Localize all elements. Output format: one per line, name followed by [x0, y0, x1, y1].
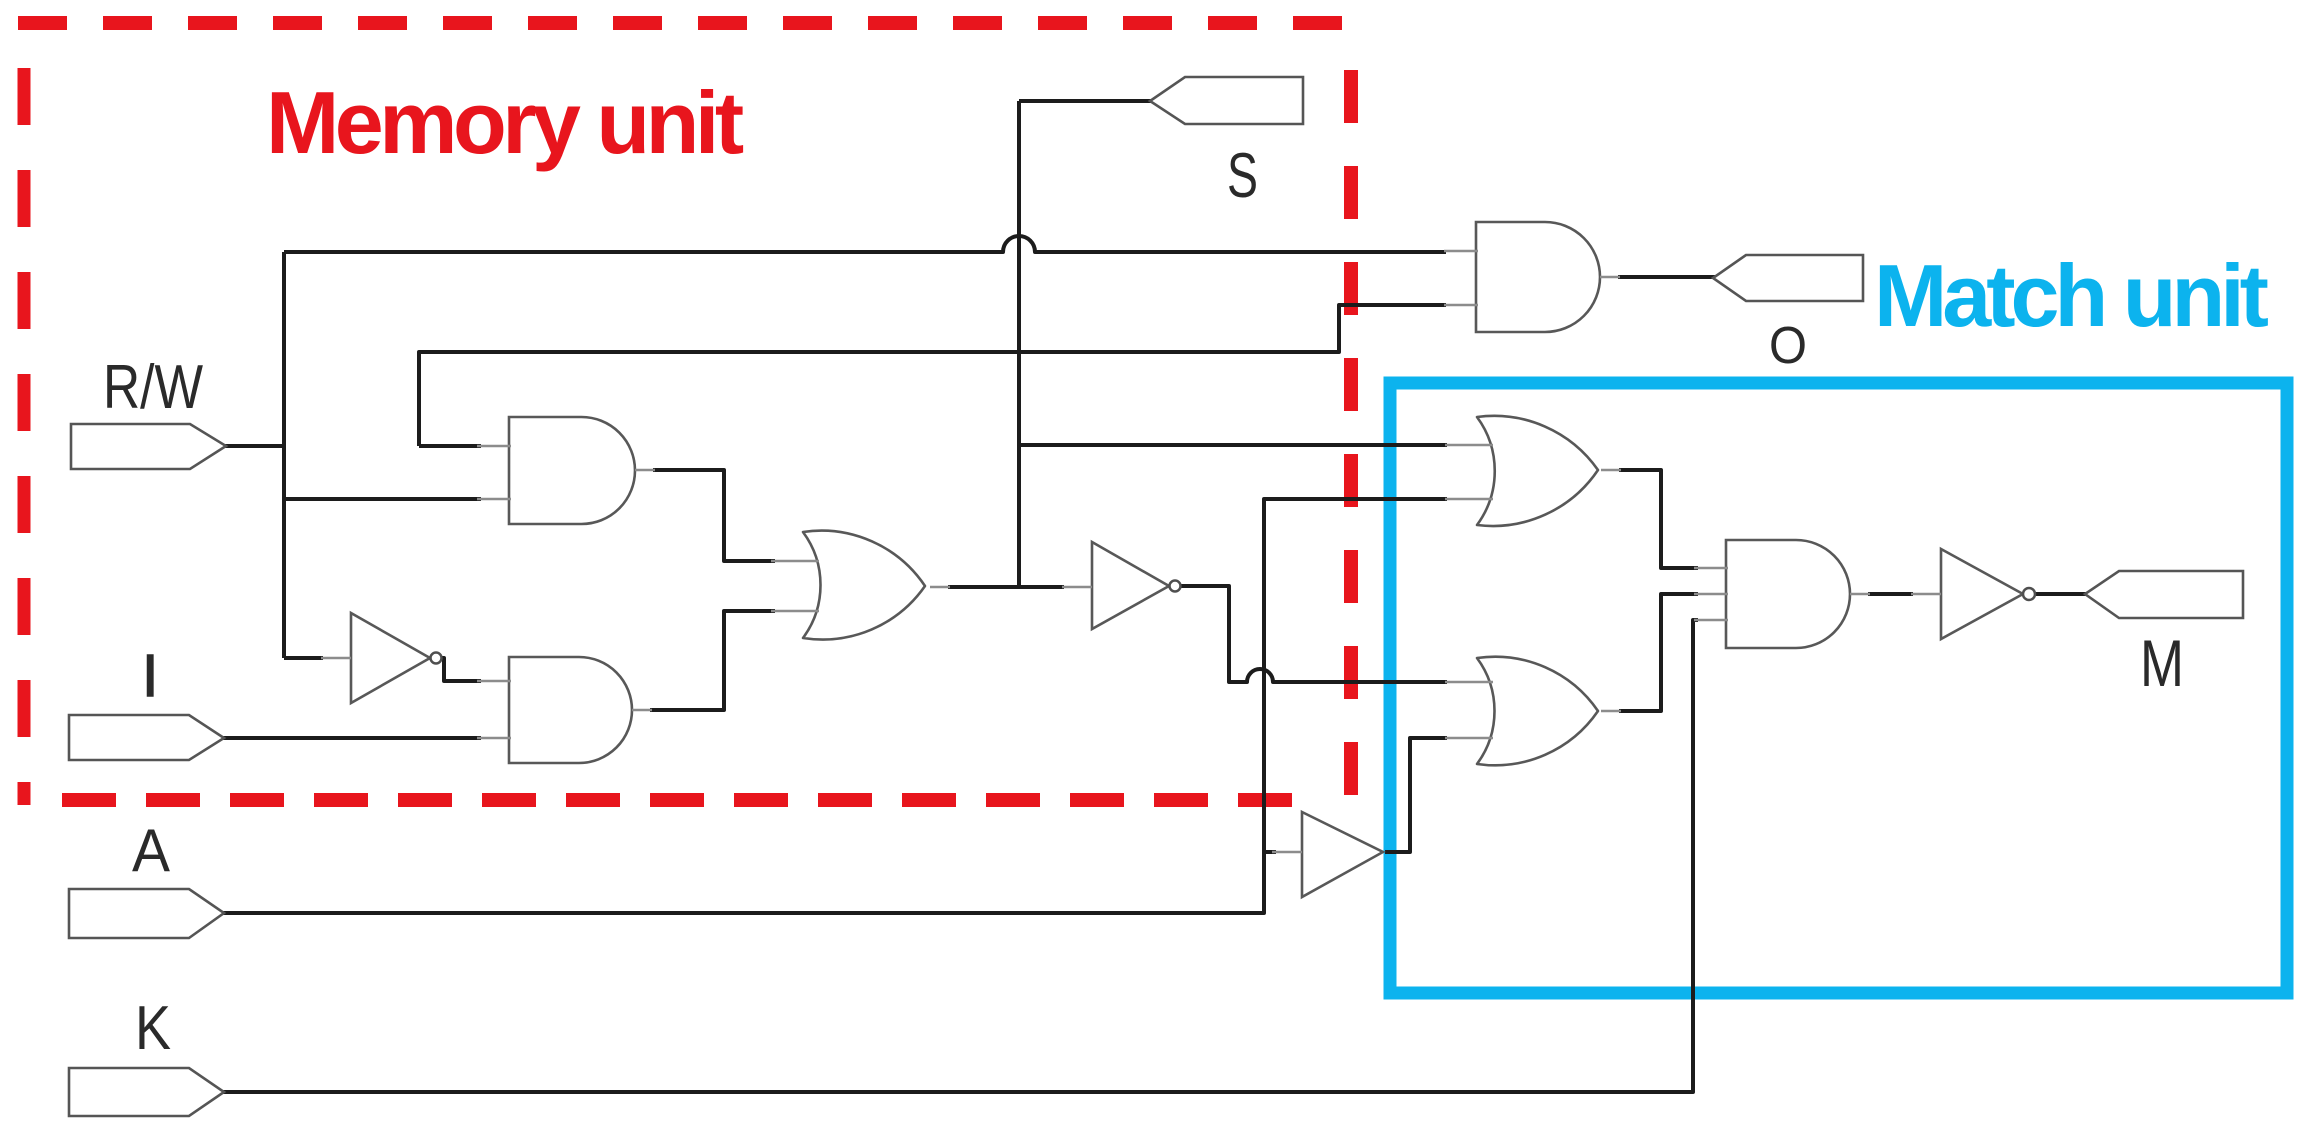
wire: K input to AND4 input 3 [214, 620, 1698, 1092]
wire: NOT2 output to OR3 top input (hop over A vertical) [1180, 586, 1447, 682]
wire: A branch to buffer input [1264, 850, 1276, 854]
not gate N1 (inverter on R/W) [321, 613, 442, 703]
wire: R/W branch to AND1 bottom input [284, 497, 481, 501]
wire: AND1 top input from vertical x=419 [419, 444, 481, 448]
wire: AND2 output to OR1 bottom input [650, 611, 775, 710]
wire: NOT3 output to M output flag [2035, 592, 2093, 596]
memory unit boundary (red dashed box) [18, 23, 1358, 805]
output port S [1150, 77, 1303, 124]
output port O [1713, 255, 1863, 301]
wire: A input to buffer and OR2 bottom input [214, 499, 1447, 913]
wire: buffer output to OR3 bottom input [1385, 738, 1447, 852]
wire: feedback rail y=352 from AND1-top-input vertical to AND3 bottom input [419, 305, 1446, 446]
svg-text:Memory unit: Memory unit [266, 73, 744, 172]
wire: NOT1 output to AND2 top input [441, 658, 481, 681]
wire: AND4 output to NOT3 input [1868, 592, 1913, 596]
and gate G4 (O output gate) [1444, 222, 1620, 332]
wire: OR2 output to AND4 input 1 [1619, 470, 1698, 568]
wire: I input to AND2 bottom input [214, 736, 481, 740]
not gate N3 (M inverter) [1911, 549, 2035, 639]
wire: AND1 output to OR1 top input [653, 470, 775, 561]
input port A [69, 889, 224, 938]
svg-text:S: S [1227, 141, 1258, 211]
output port M [2085, 571, 2243, 618]
input port R/W [71, 424, 226, 469]
or gate G6 (match bottom) [1445, 657, 1621, 766]
and gate G7 (match 3-input) [1694, 540, 1870, 648]
svg-text:O: O [1769, 317, 1807, 375]
svg-text:A: A [132, 817, 170, 884]
svg-text:M: M [2140, 626, 2184, 700]
wire: node S to S output flag [1019, 99, 1158, 103]
buffer B1 (A line driver) [1272, 812, 1383, 897]
svg-text:R/W: R/W [103, 353, 203, 422]
svg-text:K: K [135, 994, 171, 1063]
and gate G2 (reset term) [477, 657, 652, 763]
not gate N2 (S inverter) [1062, 542, 1181, 629]
wire: top rail y=252 to AND3 top input (hop over S vertical) [284, 236, 1446, 252]
svg-text:Match unit: Match unit [1874, 246, 2269, 345]
input port K [69, 1068, 224, 1116]
or gate G3 (latch) [771, 531, 950, 640]
input port I [69, 715, 224, 760]
wire: node S to OR2 top input [1019, 443, 1447, 447]
or gate G5 (match top) [1445, 416, 1621, 526]
wire: OR1 output to NOT2 input (node S) [948, 585, 1064, 589]
wire: node S vertical x=1019 [1017, 101, 1021, 587]
wire: R/W vertical bus x=284 [282, 252, 286, 658]
wire: OR3 output to AND4 input 2 [1619, 594, 1698, 711]
and gate G1 (write enable) [477, 417, 655, 524]
wire: R/W to NOT1 input [284, 656, 323, 660]
match unit boundary (blue box) [1390, 383, 2287, 993]
wire: AND3 output to O output flag [1618, 275, 1721, 279]
wire: R/W input to junction [216, 444, 284, 448]
svg-text:I: I [142, 643, 158, 709]
